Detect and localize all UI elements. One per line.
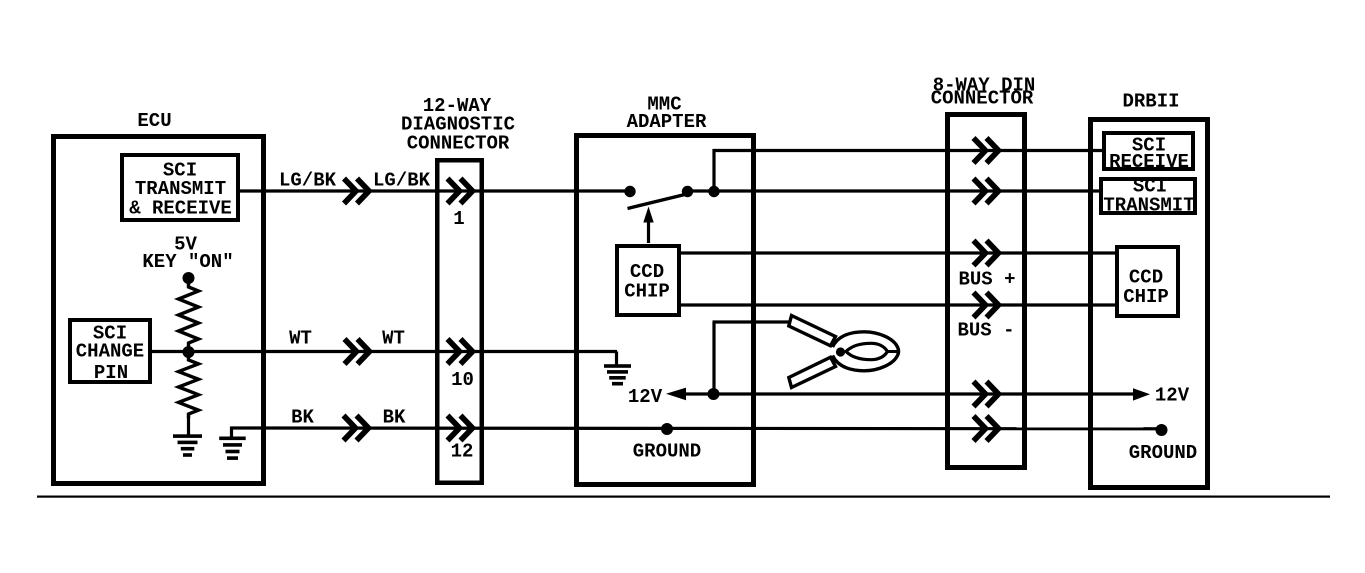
- svg-text:1: 1: [453, 208, 464, 230]
- svg-text:KEY "ON": KEY "ON": [142, 251, 233, 273]
- svg-text:CHIP: CHIP: [1123, 286, 1169, 308]
- svg-text:CHIP: CHIP: [624, 281, 670, 303]
- battery clip upper jaw: [789, 316, 836, 346]
- svg-text:WT: WT: [289, 328, 312, 350]
- box SCI TRANSMIT & RECEIVE: [122, 155, 238, 220]
- svg-text:CHANGE: CHANGE: [76, 341, 144, 363]
- arrowhead switch actuator: [643, 207, 653, 223]
- battery clip hinge dot: [836, 347, 845, 356]
- battery clip lower jaw: [789, 357, 836, 387]
- wire CCD bus+ (MMC CCD to DRBII CCD): [679, 251, 1117, 254]
- wire BK ground: [231, 426, 1162, 430]
- chevron 12-way pin 1: [448, 179, 473, 204]
- svg-text:GROUND: GROUND: [633, 441, 701, 463]
- node 12V branch dot: [708, 388, 720, 400]
- chevron 8-way DIN ground: [974, 416, 999, 441]
- chevron LG/BK wire: [344, 179, 369, 204]
- chevron 8-way DIN BUS-: [974, 293, 999, 318]
- svg-text:ECU: ECU: [137, 110, 171, 132]
- svg-text:BUS -: BUS -: [957, 320, 1014, 342]
- wire 12V: [684, 392, 1135, 395]
- svg-text:RECEIVE: RECEIVE: [1109, 151, 1189, 173]
- svg-text:10: 10: [451, 369, 474, 391]
- wire stub MMC ground: [615, 352, 618, 367]
- chevron 8-way DIN 12V: [974, 382, 999, 407]
- resistor pull-up: [179, 283, 199, 347]
- chevron WT wire: [345, 339, 370, 364]
- svg-text:WT: WT: [382, 328, 405, 350]
- wire CCD chip to switch arrow: [647, 215, 650, 243]
- arrowhead 12V right: [1133, 388, 1150, 400]
- ground ECU chassis: [219, 437, 246, 460]
- wire resistor to ground: [187, 414, 190, 436]
- ground ECU internal: [173, 434, 202, 457]
- wire CCD bus- (MMC CCD to DRBII CCD): [679, 303, 1117, 306]
- svg-text:CONNECTOR: CONNECTOR: [407, 133, 510, 155]
- horizontal rule: [37, 496, 1330, 498]
- wire LG/BK continues (switch to DRBII SCI TRANSMIT): [686, 189, 1101, 192]
- svg-text:BUS +: BUS +: [958, 269, 1015, 291]
- node 5V supply dot: [183, 272, 195, 284]
- svg-text:GROUND: GROUND: [1129, 442, 1197, 464]
- node DRBII ground dot: [1156, 424, 1168, 436]
- box ECU: [54, 137, 264, 484]
- svg-text:12V: 12V: [628, 386, 663, 408]
- switch pole dot: [624, 186, 635, 197]
- node junction SCI change pin: [183, 346, 195, 358]
- chevron 12-way pin 10: [448, 339, 473, 364]
- box CCD CHIP (DRBII): [1117, 247, 1178, 316]
- svg-text:12V: 12V: [1155, 385, 1190, 407]
- arrowhead 12V left: [666, 388, 686, 401]
- svg-text:BK: BK: [383, 407, 406, 429]
- wire SCI transmit LG/BK (ECU to switch): [238, 189, 631, 192]
- battery clip screw line: [887, 350, 900, 353]
- box 12-way diagnostic connector: [437, 160, 482, 483]
- box MMC adapter: [577, 136, 754, 485]
- wire 5V to resistor: [187, 278, 190, 286]
- wire clip branch vertical to 12V: [712, 322, 715, 395]
- switch blade: [628, 194, 690, 209]
- node MMC ground dot: [661, 423, 673, 435]
- switch branch dot: [708, 186, 719, 197]
- svg-text:CONNECTOR: CONNECTOR: [931, 88, 1034, 110]
- chevron 8-way DIN BUS+: [974, 241, 999, 266]
- wire to battery clip: [713, 320, 791, 323]
- wire branch vertical to SCI receive line: [712, 149, 715, 191]
- resistor pull-down: [179, 356, 199, 418]
- svg-text:LG/BK: LG/BK: [279, 170, 337, 192]
- box SCI RECEIVE: [1104, 133, 1193, 169]
- battery clip jaw opening: [846, 343, 888, 359]
- wire SCI receive line (to DRBII SCI RECEIVE): [714, 149, 1104, 152]
- box SCI CHANGE PIN: [70, 320, 150, 382]
- svg-text:DRBII: DRBII: [1122, 91, 1179, 113]
- svg-text:ADAPTER: ADAPTER: [627, 111, 707, 133]
- switch throw dot: [682, 186, 693, 197]
- ground MMC: [604, 364, 631, 385]
- box 8-way DIN connector: [948, 115, 1025, 468]
- battery clip loop body: [833, 332, 899, 371]
- svg-text:PIN: PIN: [94, 362, 128, 384]
- chevron 8-way DIN pin 1: [974, 138, 999, 163]
- chevron 8-way DIN pin 2: [974, 179, 999, 204]
- svg-text:12: 12: [451, 441, 474, 463]
- box DRBII: [1091, 120, 1208, 488]
- box CCD CHIP (MMC): [617, 246, 679, 315]
- wire WT (SCI change pin to MMC ground): [150, 350, 617, 353]
- chevron 12-way pin 12: [448, 416, 473, 441]
- wire stub ground 2: [230, 427, 233, 439]
- chevron BK wire: [344, 416, 369, 441]
- box SCI TRANSMIT (DRBII): [1101, 179, 1195, 213]
- svg-text:TRANSMIT: TRANSMIT: [1103, 195, 1194, 217]
- svg-text:BK: BK: [291, 407, 314, 429]
- svg-text:& RECEIVE: & RECEIVE: [129, 198, 232, 220]
- svg-text:LG/BK: LG/BK: [373, 170, 431, 192]
